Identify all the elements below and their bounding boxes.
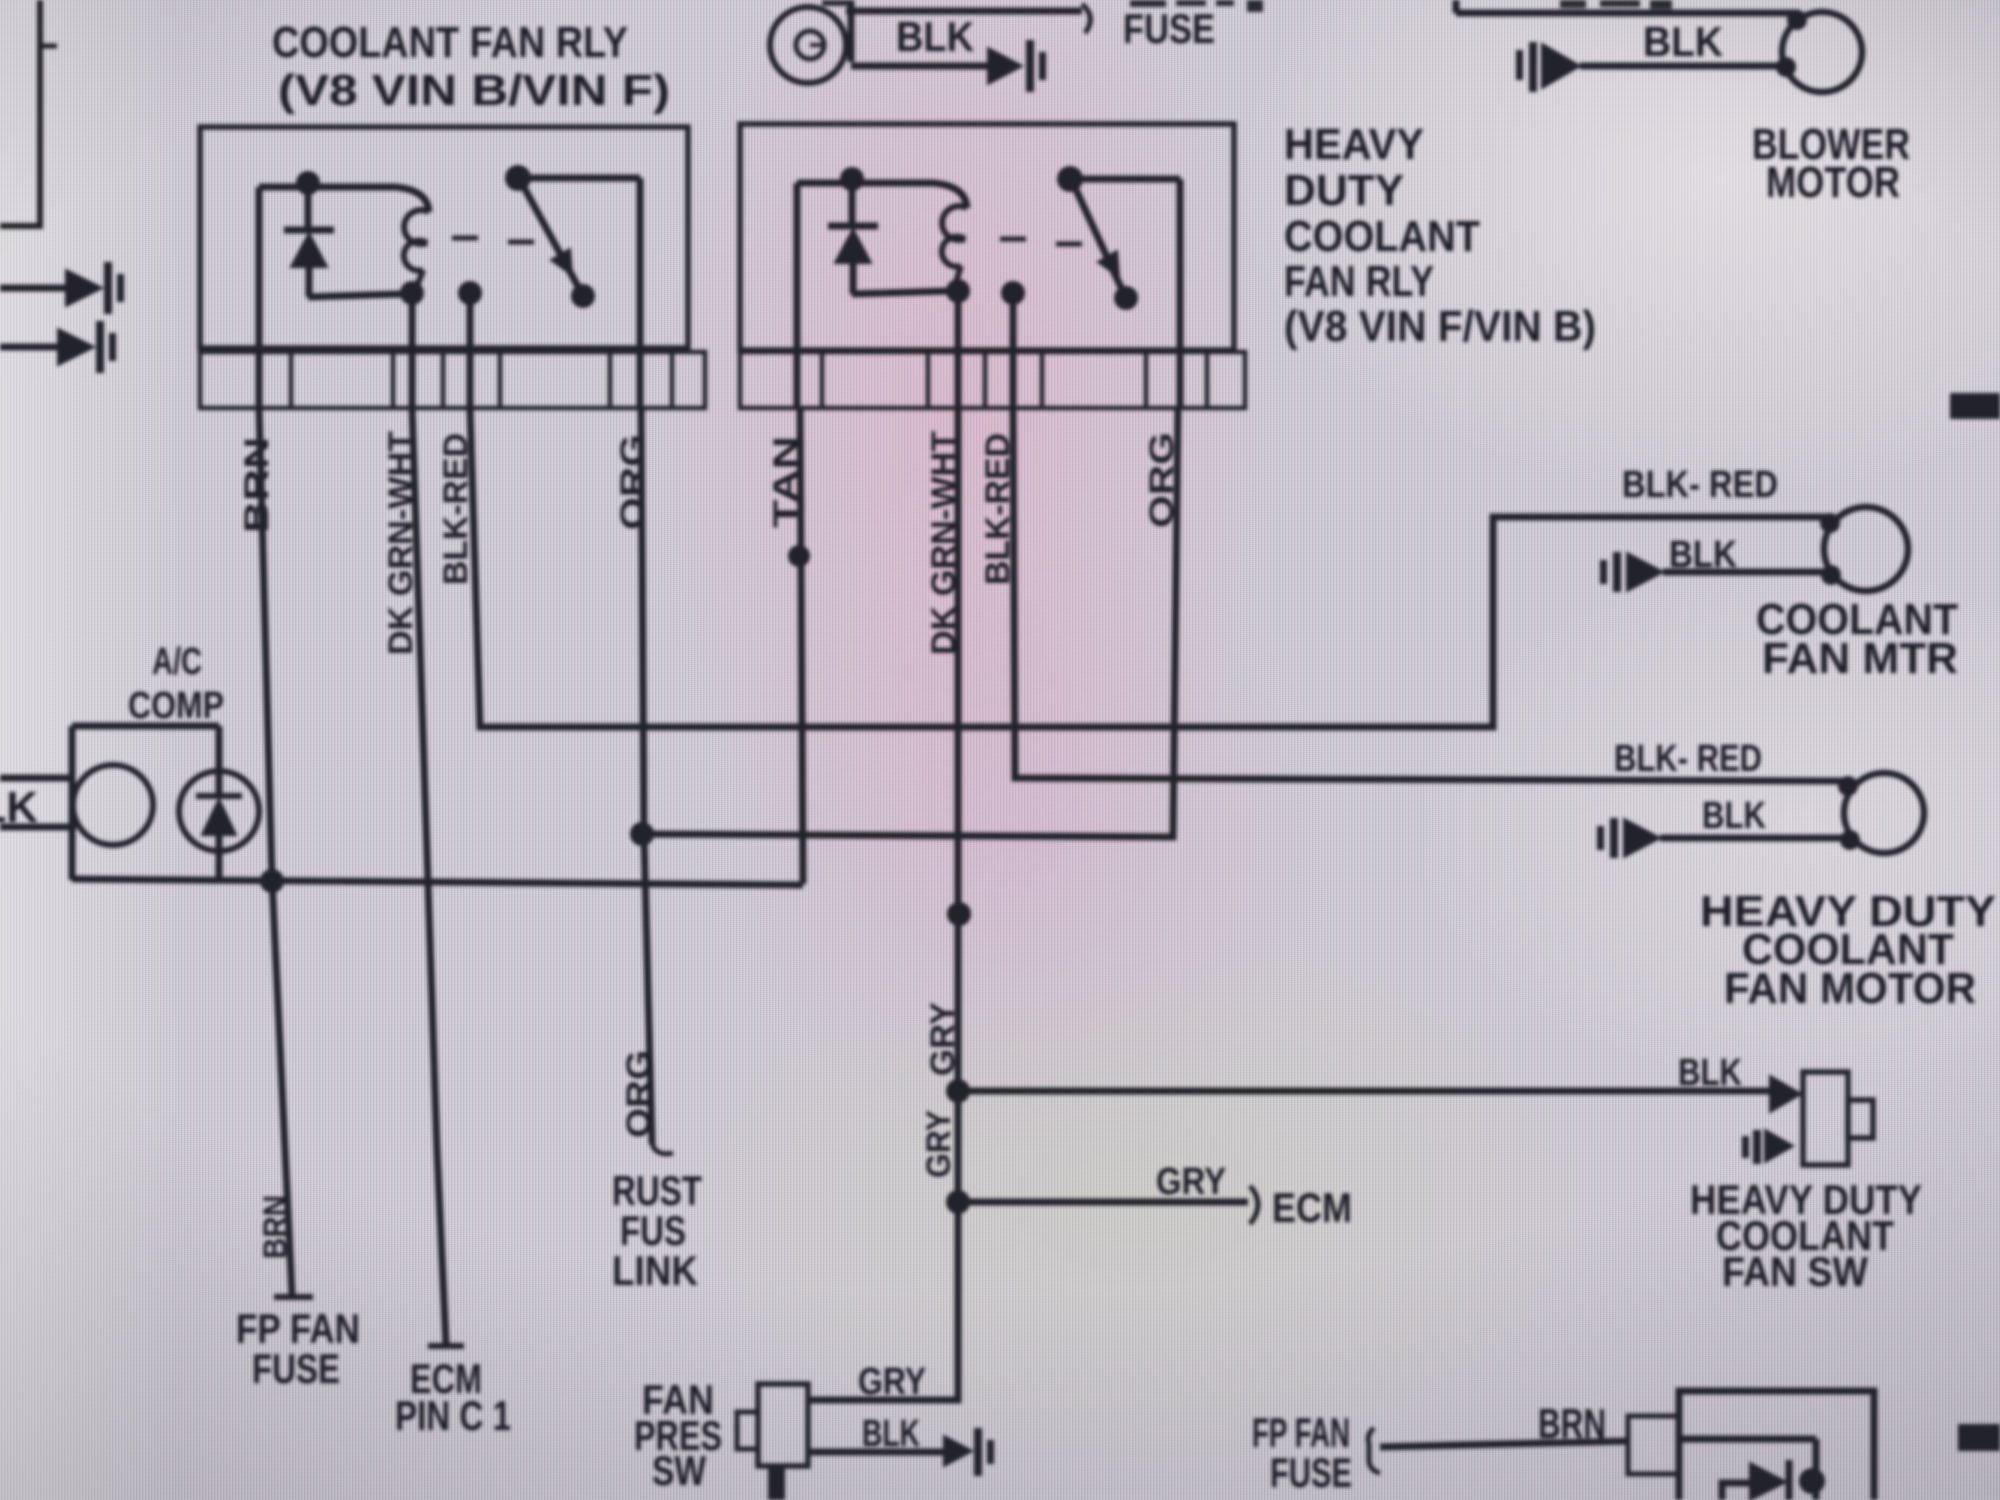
wire ORG from K1 down to RUST FUS LINK [641, 408, 673, 1154]
relay K2 clamp diode D2 [828, 167, 948, 294]
label BLK (fan pres sw) [862, 1413, 920, 1455]
label GRY (fan pres sw) [858, 1361, 926, 1403]
label ORG lower (vertical) [620, 1050, 658, 1138]
relay K1 switch pivot and feed to ORG pin [505, 165, 640, 352]
svg-text:FUSE: FUSE [252, 1345, 340, 1392]
relay K1 contact (to BLK-RED pin) [458, 281, 482, 352]
wire from circle to fuse bracket [846, 8, 1082, 15]
wire BLK GRY-branch to heavy duty coolant fan switch [958, 1088, 1770, 1095]
relay K2 coil L2 [942, 206, 970, 352]
label BLK- RED (hd fan motor) [1614, 738, 1762, 780]
svg-text:ORG: ORG [614, 434, 652, 530]
wire DK GRN-WHT from K1 to ECM PIN C1 [412, 408, 464, 1346]
svg-text:BRN: BRN [257, 1195, 293, 1259]
wire BRN from K1 to FP FAN FUSE [259, 408, 313, 1297]
svg-text:GRY: GRY [858, 1361, 926, 1403]
junction node GRY to fan switch [946, 1079, 970, 1103]
label COOLANT FAN MTR [1756, 595, 1958, 683]
coolant fan motor M2 [1820, 507, 1908, 591]
label BLK (coolant fan mtr) [1669, 534, 1737, 576]
svg-text:MOTOR: MOTOR [1766, 158, 1900, 207]
label GRY upper (vertical) [924, 1002, 962, 1076]
wire label DK GRN-WHT k2 (vertical) [925, 431, 963, 655]
svg-text:BRN: BRN [1538, 1400, 1606, 1447]
svg-text:BLK- RED: BLK- RED [1614, 738, 1762, 780]
junction node: BRN / A-C comp ground [260, 869, 284, 893]
wire label DK GRN-WHT (vertical) [382, 431, 420, 655]
label ECM PIN C1 [395, 1355, 511, 1439]
splice node GRY upper [947, 902, 971, 926]
partial box top-left corner [0, 0, 57, 226]
fan pressure switch S2 [737, 1384, 808, 1500]
wire label BLK-RED k2 (vertical) [979, 433, 1017, 585]
heavy duty coolant fan switch S1 [1770, 1072, 1873, 1165]
svg-text:LINK: LINK [612, 1247, 698, 1294]
svg-text:GRY: GRY [924, 1002, 962, 1076]
connector C100 (left, upper) [0, 262, 124, 314]
ground wire from A/C COMP to TAN corner [72, 879, 803, 885]
wire BRN to bottom-right relay [1380, 1441, 1630, 1447]
label BLK (hd fan motor) [1702, 795, 1766, 837]
relay K2 top internal wire [797, 183, 967, 208]
fusible link symbol right [1368, 1428, 1380, 1473]
cut text specks top edge [822, 0, 1672, 12]
relay K1 top internal wire [259, 187, 429, 212]
label BLK top [896, 13, 974, 60]
pin stubs through strip K1 [256, 352, 263, 410]
label FP FAN FUSE (left) [236, 1305, 360, 1392]
svg-text:BLK- RED: BLK- RED [1622, 464, 1778, 506]
relay K2 contact (to BLK-RED pin) [1001, 281, 1025, 352]
label FUSE top [1123, 5, 1215, 52]
relay K2 actuator dashed link [1000, 239, 1082, 244]
svg-text:GRY: GRY [920, 1110, 958, 1178]
label BRN lower (vertical) [257, 1195, 293, 1259]
svg-text:SW: SW [652, 1447, 706, 1494]
wire TAN from K2 to A/C comp line [800, 408, 803, 884]
svg-text:BLK: BLK [1702, 795, 1766, 837]
relay K1 clamp diode D1 [284, 171, 402, 297]
relay K2 pin feed wire (inner left vertical) [794, 183, 801, 352]
svg-text:BLK: BLK [1678, 1052, 1742, 1094]
wire label ORG k2 (vertical) [1143, 432, 1181, 528]
label ECM [1272, 1184, 1352, 1231]
label FP FAN FUSE (right) [1252, 1409, 1352, 1496]
svg-text:GRY: GRY [1156, 1161, 1226, 1203]
A/C COMP box [72, 726, 219, 880]
svg-text:COOLANT FAN RLY: COOLANT FAN RLY [272, 18, 628, 67]
wire BLK-RED from K1 to COOLANT FAN MTR [470, 408, 1828, 727]
pin stubs through strip K2 [794, 352, 801, 410]
black bar right edge middle [1950, 393, 2000, 419]
blower motor BLK wire with connector [1516, 42, 1786, 92]
svg-text:COMP: COMP [128, 685, 224, 727]
svg-text:ORG: ORG [620, 1050, 658, 1138]
svg-text:FAN SW: FAN SW [1722, 1248, 1868, 1295]
label GRY lower (vertical) [920, 1110, 958, 1178]
svg-text:FAN MTR: FAN MTR [1762, 634, 1958, 683]
wire label BLK-RED (vertical) [437, 433, 475, 585]
fuse bracket [1082, 4, 1090, 33]
svg-text:PIN C 1: PIN C 1 [395, 1392, 511, 1439]
wire GRY (DK GRN-WHT) from K2 down to FAN PRES SW [806, 410, 958, 1400]
coolant fan motor BLK wire with connector [1600, 552, 1830, 592]
fuse pin box right [1628, 1416, 1678, 1474]
relay K1 pin 1 feed wire (inner left vertical) [256, 187, 263, 352]
svg-text:FAN RLY: FAN RLY [1284, 257, 1434, 306]
connector C103 (fan pres sw) [944, 1428, 994, 1476]
wire label ORG (vertical) [614, 434, 652, 530]
relay K2 connector strip [740, 352, 1245, 408]
connector half below fan switch [1742, 1130, 1793, 1164]
wire GRY branch to ECM [958, 1199, 1248, 1206]
wire label TAN (vertical) [767, 436, 805, 528]
label BRN (right) [1538, 1400, 1606, 1447]
partial relay K3 bottom right [1679, 1391, 1874, 1500]
label GRY (ecm branch) [1156, 1161, 1226, 1203]
junction node: ORG K1/K2 [630, 822, 654, 846]
blower motor M1 [1776, 10, 1862, 92]
A/C compressor clutch coil (circle) [73, 765, 153, 845]
ECM bracket [1250, 1186, 1258, 1224]
wire label BRN (vertical) [238, 437, 276, 533]
wire BLK-RED from K2 to HEAVY DUTY COOLANT FAN MOTOR [1013, 408, 1846, 781]
svg-text:BLK: BLK [1643, 18, 1723, 65]
label: COOLANT FAN RLY (V8 VIN B/VIN F) [272, 18, 670, 115]
label BLK- RED (coolant fan mtr) [1622, 464, 1778, 506]
relay K1 coil L1 [400, 210, 429, 352]
label HEAVY DUTY COOLANT FAN SW [1690, 1176, 1922, 1295]
relay K2 switch armature [1072, 181, 1138, 310]
label BLK blower [1643, 18, 1723, 65]
junction circle (generator symbol) top [770, 7, 846, 83]
label HEAVY DUTY COOLANT FAN MOTOR [1700, 887, 1996, 1013]
label FAN PRES SW [634, 1376, 722, 1494]
relay K2 switch pivot and feed to ORG pin [1057, 166, 1180, 352]
svg-text:BLK: BLK [896, 13, 974, 60]
svg-text:(V8 VIN F/VIN B): (V8 VIN F/VIN B) [1284, 302, 1596, 351]
label BLK (clipped at edge) [0, 783, 38, 832]
svg-text:FUSE: FUSE [1270, 1449, 1352, 1496]
label BLOWER MOTOR [1752, 120, 1910, 207]
splice node on TAN wire [788, 545, 810, 567]
svg-text:ECM: ECM [1272, 1184, 1352, 1231]
label BLK (fan sw) [1678, 1052, 1742, 1094]
label: HEAVY DUTY COOLANT FAN RLY (V8 VIN F/VIN B) [1284, 120, 1596, 351]
relay K1: COOLANT FAN RLY box [200, 127, 688, 348]
svg-text:DUTY: DUTY [1284, 166, 1404, 215]
svg-text:FUSE: FUSE [1123, 5, 1215, 52]
svg-text:COOLANT: COOLANT [1284, 212, 1480, 261]
relay K1 switch armature [520, 180, 595, 308]
svg-text:BLK: BLK [0, 783, 38, 832]
wire BLK from fan pres sw to connector [808, 1449, 944, 1456]
hd fan motor BLK wire with connector [1597, 818, 1848, 858]
wire BLK from circle to connector [851, 0, 988, 66]
connector C102 top [988, 40, 1046, 92]
relay K1 connector strip [200, 352, 705, 408]
relay K1 actuator dashed link [452, 238, 534, 242]
label A/C COMP [128, 641, 224, 727]
svg-text:FAN MOTOR: FAN MOTOR [1724, 964, 1976, 1013]
black bar right edge bottom [1958, 1424, 2000, 1451]
svg-text:HEAVY: HEAVY [1284, 120, 1424, 169]
label RUST FUS LINK [612, 1167, 702, 1294]
heavy duty coolant fan motor M3 [1838, 773, 1924, 853]
svg-text:(V8 VIN B/VIN F): (V8 VIN B/VIN F) [278, 66, 670, 115]
wire ORG from K2 to junction [642, 408, 1178, 837]
svg-text:A/C: A/C [152, 641, 202, 683]
blower motor feed wire (GRD) [1456, 0, 1800, 13]
A/C diode branch with circled diode [179, 726, 259, 880]
connector C101 (left, lower) [0, 321, 116, 373]
wire stubs into A/C COMP from left edge [0, 775, 74, 782]
relay K2: HEAVY DUTY COOLANT FAN RLY box [740, 124, 1234, 350]
junction node GRY to ECM [946, 1190, 970, 1214]
